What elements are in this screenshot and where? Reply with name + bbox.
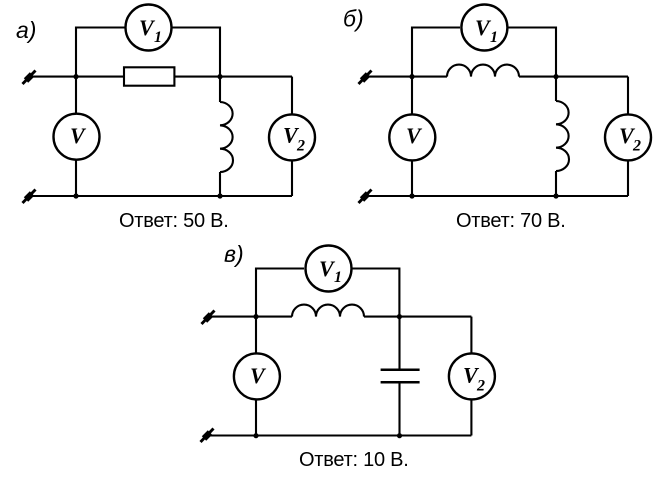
node junction left-top (circuit b) [409, 74, 414, 79]
node junction mid-top (circuit a) [217, 74, 222, 79]
voltmeter V1 (circuit v) [306, 246, 352, 292]
svg-text:2: 2 [296, 138, 305, 155]
inductor L2 vertical (circuit b) [556, 101, 569, 171]
svg-text:Ответ: 50 В.: Ответ: 50 В. [119, 210, 229, 232]
terminal slash top-left (circuit a) [23, 71, 36, 85]
wire middle vertical lower (circuit b) [555, 171, 557, 196]
terminal slash top-left (circuit b) [359, 71, 372, 85]
wire top branch left (circuit v) [256, 269, 304, 318]
wire bottom (circuit a) [28, 195, 292, 197]
svg-text:V: V [406, 123, 423, 148]
node junction left-bottom (circuit a) [73, 193, 78, 198]
inductor L horizontal (circuit v) [292, 305, 364, 317]
svg-text:2: 2 [476, 378, 485, 395]
svg-text:Ответ: 70 В.: Ответ: 70 В. [456, 210, 566, 232]
node junction mid-bottom (circuit a) [217, 193, 222, 198]
wire top branch left (circuit b) [412, 28, 460, 78]
wire main top left segment (circuit a) [28, 76, 124, 78]
terminal slash top-left (circuit v) [202, 311, 215, 325]
svg-text:в): в) [224, 241, 244, 267]
svg-text:а): а) [16, 17, 36, 43]
svg-text:V: V [70, 123, 87, 148]
wire right vertical upper (circuit v) [470, 317, 472, 353]
terminal slash bottom-left (circuit b) [359, 190, 372, 204]
wire middle vertical upper (circuit a) [219, 77, 221, 102]
terminal slash bottom-left (circuit a) [23, 190, 36, 204]
voltmeter V (circuit a) [54, 114, 100, 160]
node junction left-bottom (circuit b) [409, 193, 414, 198]
wire top branch right (circuit v) [353, 269, 400, 318]
voltmeter V2 (circuit v) [449, 353, 495, 399]
wire right vertical lower (circuit b) [627, 161, 629, 196]
wire left vertical lower (circuit b) [411, 161, 413, 196]
voltmeter V2 (circuit a) [269, 114, 315, 160]
node junction mid-top (circuit v) [397, 314, 402, 319]
wire right vertical upper (circuit b) [627, 77, 629, 114]
wire top branch right (circuit a) [173, 28, 221, 78]
inductor L1 horizontal (circuit b) [447, 65, 519, 77]
node junction mid-top (circuit b) [553, 74, 558, 79]
svg-text:б): б) [343, 6, 364, 32]
wire left vertical upper (circuit v) [255, 317, 257, 353]
node junction mid-bottom (circuit b) [553, 193, 558, 198]
wire bottom (circuit v) [206, 434, 471, 436]
capacitor C (circuit v) [381, 370, 420, 383]
svg-text:V: V [250, 363, 267, 388]
node junction mid-bottom (circuit v) [397, 433, 402, 438]
wire left vertical lower (circuit a) [75, 161, 77, 197]
wire main top left segment (circuit v) [207, 316, 292, 318]
svg-text:Ответ: 10 В.: Ответ: 10 В. [299, 449, 409, 471]
wire main top right segment (circuit v) [364, 316, 471, 318]
svg-text:1: 1 [490, 29, 498, 46]
svg-text:1: 1 [154, 29, 162, 46]
wire top branch left (circuit a) [76, 28, 125, 78]
wire left vertical upper (circuit a) [75, 77, 77, 113]
svg-text:1: 1 [334, 269, 342, 286]
wire right vertical lower (circuit v) [470, 400, 472, 435]
wire right vertical lower (circuit a) [291, 161, 293, 196]
wire middle vertical upper (circuit b) [555, 77, 557, 101]
voltmeter V (circuit v) [234, 353, 280, 399]
terminal slash bottom-left (circuit v) [201, 429, 214, 443]
node junction left-top (circuit v) [253, 314, 258, 319]
wire main top right segment (circuit b) [519, 76, 628, 78]
node junction left-top (circuit a) [73, 74, 78, 79]
voltmeter V2 (circuit b) [605, 114, 651, 160]
wire bottom (circuit b) [364, 195, 628, 197]
svg-text:2: 2 [632, 138, 641, 155]
wire main top right segment (circuit a) [174, 76, 292, 78]
resistor R (circuit a) [124, 67, 174, 85]
voltmeter V1 (circuit a) [126, 5, 172, 51]
voltmeter V (circuit b) [389, 114, 435, 160]
wire main top left segment (circuit b) [364, 76, 447, 78]
voltmeter V1 (circuit b) [461, 5, 507, 51]
wire middle vertical lower (circuit a) [219, 172, 221, 196]
wire middle vertical upper (circuit v) [398, 317, 400, 369]
inductor L (circuit a) [220, 102, 233, 172]
wire right vertical upper (circuit a) [291, 77, 293, 114]
node junction left-bottom (circuit v) [253, 433, 258, 438]
wire top branch right (circuit b) [508, 28, 556, 78]
wire middle vertical lower (circuit v) [398, 383, 400, 436]
wire left vertical upper (circuit b) [411, 77, 413, 114]
wire left vertical lower (circuit v) [255, 400, 257, 435]
